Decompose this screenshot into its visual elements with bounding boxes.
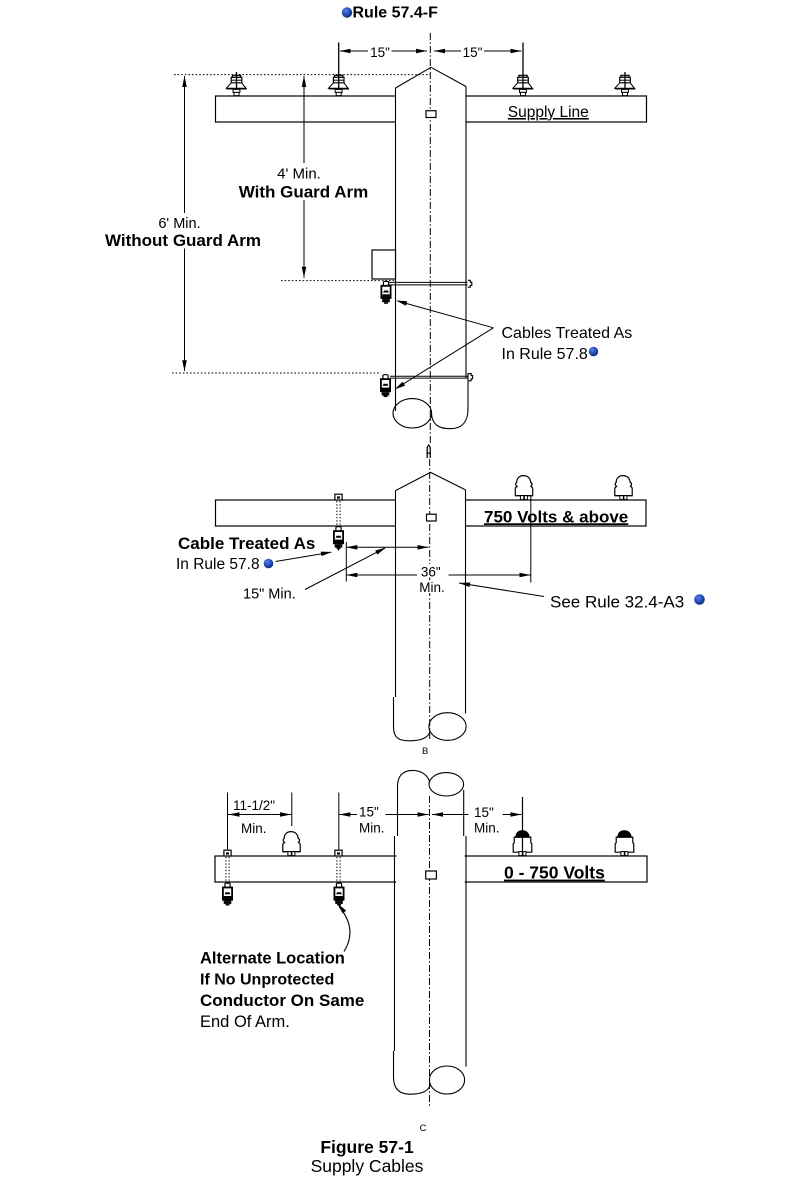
- svg-text:With Guard Arm: With Guard Arm: [239, 183, 369, 202]
- svg-text:Rule 57.4-F: Rule 57.4-F: [353, 5, 439, 22]
- svg-text:Supply Line: Supply Line: [508, 104, 589, 121]
- svg-text:In Rule 57.8: In Rule 57.8: [502, 346, 588, 363]
- svg-text:15": 15": [370, 45, 390, 60]
- svg-text:Cables Treated As: Cables Treated As: [502, 325, 633, 342]
- svg-text:36": 36": [421, 564, 441, 579]
- svg-text:B: B: [422, 746, 428, 757]
- svg-text:Cable Treated As: Cable Treated As: [178, 534, 315, 553]
- svg-text:15" Min.: 15" Min.: [243, 587, 296, 603]
- svg-text:15": 15": [359, 805, 379, 820]
- svg-text:Without Guard Arm: Without Guard Arm: [105, 231, 261, 250]
- svg-text:15": 15": [474, 805, 494, 820]
- svg-text:Conductor On Same: Conductor On Same: [200, 991, 364, 1010]
- svg-text:Alternate Location: Alternate Location: [200, 950, 345, 968]
- svg-text:End Of Arm.: End Of Arm.: [200, 1013, 290, 1031]
- svg-text:Min.: Min.: [241, 821, 267, 836]
- svg-text:In Rule 57.8: In Rule 57.8: [176, 556, 260, 573]
- svg-text:C: C: [420, 1123, 427, 1134]
- svg-text:0 - 750 Volts: 0 - 750 Volts: [504, 863, 605, 883]
- svg-text:750 Volts & above: 750 Volts & above: [484, 507, 628, 526]
- svg-text:See Rule 32.4-A3: See Rule 32.4-A3: [550, 593, 684, 612]
- svg-text:4' Min.: 4' Min.: [277, 166, 321, 183]
- svg-text:If No Unprotected: If No Unprotected: [200, 972, 334, 989]
- svg-text:Supply Cables: Supply Cables: [311, 1156, 424, 1176]
- svg-text:15": 15": [463, 45, 483, 60]
- svg-text:11-1/2": 11-1/2": [233, 798, 275, 813]
- svg-text:Min.: Min.: [419, 580, 445, 595]
- svg-text:Min.: Min.: [359, 821, 385, 836]
- svg-text:Figure 57-1: Figure 57-1: [320, 1137, 414, 1157]
- svg-text:6' Min.: 6' Min.: [158, 216, 200, 232]
- svg-text:Min.: Min.: [474, 821, 500, 836]
